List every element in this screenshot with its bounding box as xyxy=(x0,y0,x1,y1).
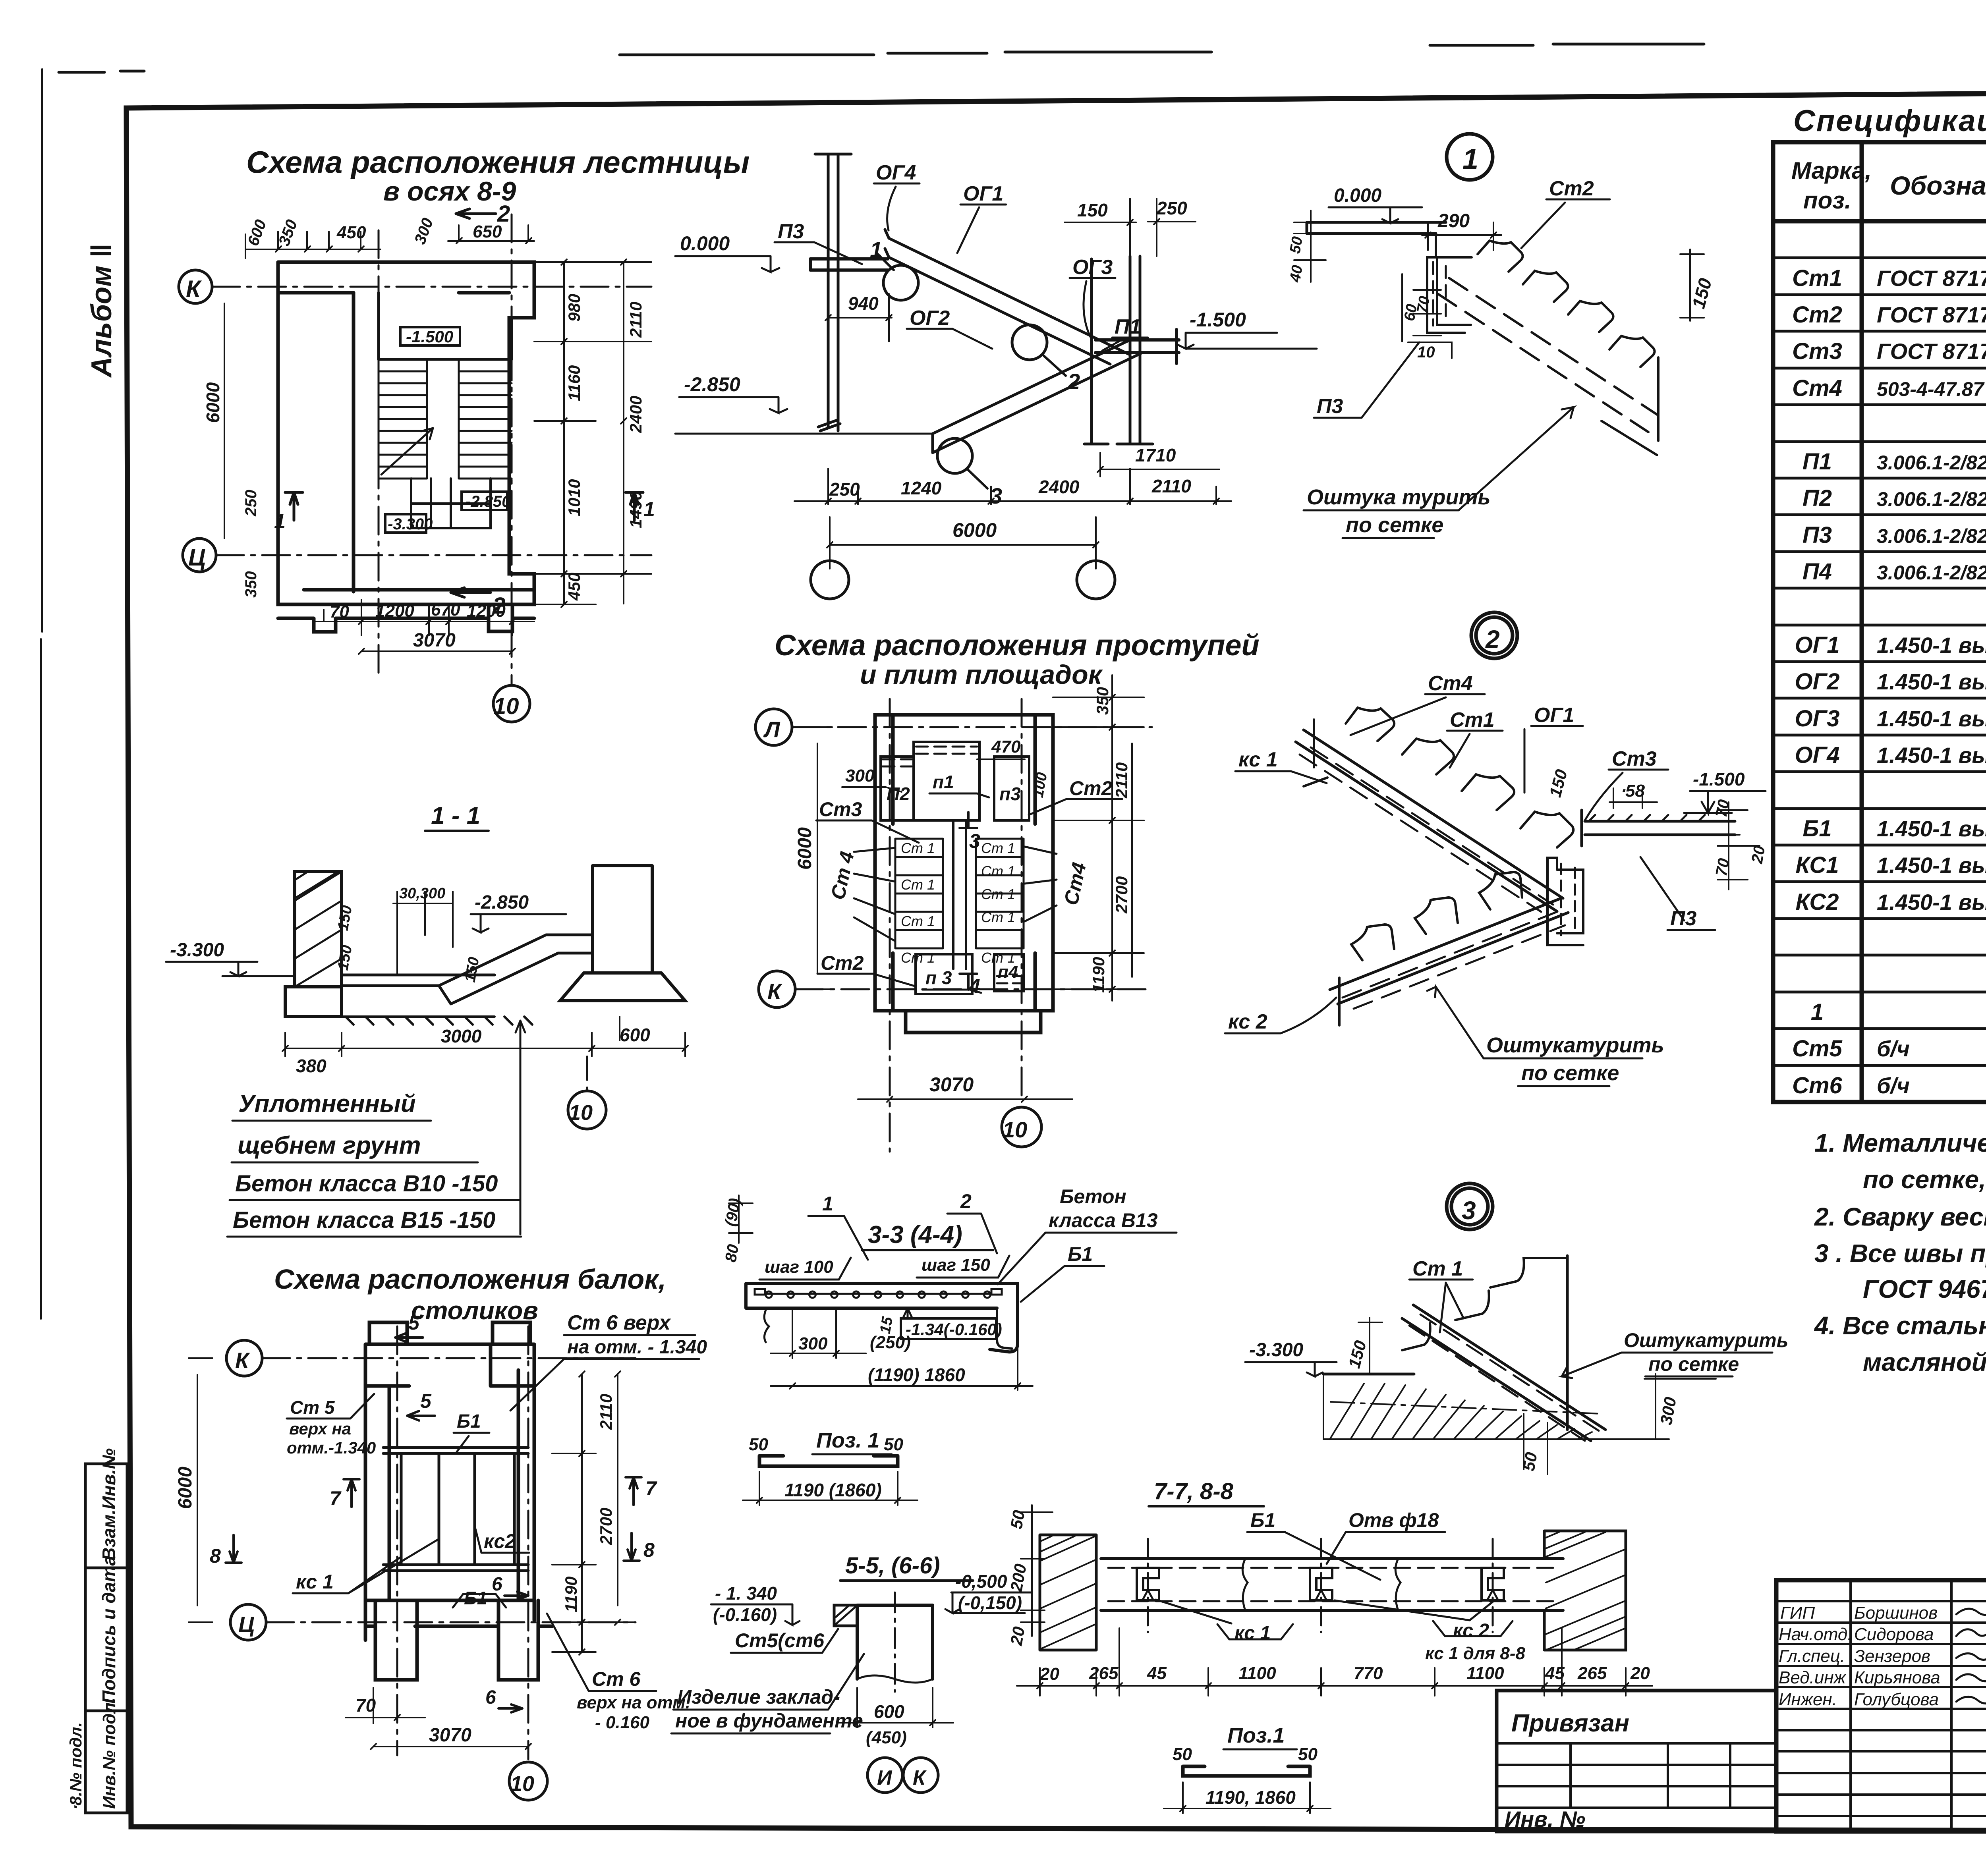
svg-text:Схема расположения лестницы: Схема расположения лестницы xyxy=(246,145,750,179)
svg-text:п1: п1 xyxy=(933,772,954,792)
svg-text:Ст5: Ст5 xyxy=(1792,1036,1842,1062)
privyazan box xyxy=(1497,1691,1776,1832)
svg-text:3070: 3070 xyxy=(413,630,456,651)
svg-text:кс 1 для 8-8: кс 1 для 8-8 xyxy=(1425,1644,1526,1663)
svg-text:(1190) 1860: (1190) 1860 xyxy=(868,1365,965,1385)
svg-text:кс 2: кс 2 xyxy=(1453,1620,1489,1641)
s33 rebar dots xyxy=(766,1291,991,1298)
d3 hatch region xyxy=(1323,1374,1605,1439)
elevation right platform xyxy=(1095,330,1179,363)
svg-text:Поз.1: Поз.1 xyxy=(1227,1724,1285,1747)
svg-text:шаг 100: шаг 100 xyxy=(765,1257,833,1277)
svg-text:350: 350 xyxy=(1093,687,1112,715)
svg-text:503-4-47.87 -КЖИ-ЛС12-1: 503-4-47.87 -КЖИ-ЛС12-1 xyxy=(1877,378,1986,400)
flight og1 xyxy=(889,238,1129,364)
svg-text:2400: 2400 xyxy=(1038,477,1080,497)
svg-text:п3: п3 xyxy=(999,784,1021,804)
svg-text:П1: П1 xyxy=(1115,315,1141,338)
svg-text:15: 15 xyxy=(877,1315,896,1335)
svg-text:шаг 150: шаг 150 xyxy=(922,1255,990,1275)
svg-text:-3.300: -3.300 xyxy=(1249,1339,1303,1361)
bp walls xyxy=(365,1322,552,1680)
svg-text:50: 50 xyxy=(749,1435,768,1454)
svg-text:ОГ1: ОГ1 xyxy=(1795,632,1840,658)
svg-text:Ц: Ц xyxy=(188,544,206,571)
svg-text:К: К xyxy=(235,1348,250,1373)
pos1 right bar xyxy=(1183,1766,1310,1776)
svg-text:2. Сварку вести электродами: 2. Сварку вести электродами типа Э 42. xyxy=(1814,1202,1986,1231)
svg-text:кс 1: кс 1 xyxy=(296,1571,334,1593)
svg-text:8: 8 xyxy=(643,1539,655,1561)
svg-text:Б1: Б1 xyxy=(1250,1509,1275,1531)
svg-text:4. Все стальные конструк: 4. Все стальные конструкции окрасить xyxy=(1814,1311,1986,1340)
svg-text:-1.34(-0.160): -1.34(-0.160) xyxy=(906,1320,1002,1339)
svg-text:1: 1 xyxy=(1811,999,1824,1025)
svg-text:Сидорова: Сидорова xyxy=(1854,1625,1934,1644)
svg-text:50: 50 xyxy=(1298,1745,1318,1764)
midplan right dims xyxy=(1053,675,1144,1001)
d3 flight band xyxy=(1402,1256,1605,1441)
svg-text:3000: 3000 xyxy=(441,1026,482,1046)
detail circle 3 xyxy=(937,438,972,473)
svg-text:350: 350 xyxy=(242,571,260,598)
level box -1.500 xyxy=(400,327,460,345)
section mark 2 top xyxy=(456,209,496,218)
bottom dims xyxy=(314,600,534,654)
svg-text:1.450-1 вып.2: 1.450-1 вып.2 xyxy=(1877,633,1986,658)
svg-text:⋅8.№ подл.: ⋅8.№ подл. xyxy=(66,1722,85,1811)
svg-text:Ст4: Ст4 xyxy=(1792,375,1842,401)
svg-text:Ст 1: Ст 1 xyxy=(981,886,1015,902)
svg-text:⋅58: ⋅58 xyxy=(1620,781,1645,801)
bp axis Ts circle xyxy=(230,1604,266,1640)
left flight treads xyxy=(379,359,427,479)
svg-text:1.450-1 вып. 2: 1.450-1 вып. 2 xyxy=(1877,816,1986,841)
svg-text:Ц: Ц xyxy=(238,1612,255,1637)
svg-text:Альбом ‖: Альбом ‖ xyxy=(86,243,118,378)
svg-text:Бетон: Бетон xyxy=(1060,1185,1126,1208)
svg-text:3-3 (4-4): 3-3 (4-4) xyxy=(868,1221,962,1249)
svg-text:ОГ4: ОГ4 xyxy=(876,161,916,184)
svg-text:верх на: верх на xyxy=(289,1419,351,1438)
svg-text:щебнем грунт: щебнем грунт xyxy=(238,1132,421,1159)
bp stringers xyxy=(401,1453,514,1565)
svg-text:1490: 1490 xyxy=(626,491,645,528)
svg-text:5-5, (6-6): 5-5, (6-6) xyxy=(845,1553,940,1579)
svg-text:70: 70 xyxy=(330,602,349,621)
svg-text:50: 50 xyxy=(1287,235,1306,255)
svg-text:40: 40 xyxy=(1287,264,1306,284)
svg-text:ГОСТ 9467-75: ГОСТ 9467-75 xyxy=(1863,1275,1986,1303)
svg-text:Л: Л xyxy=(763,717,780,742)
svg-text:Б1: Б1 xyxy=(1802,816,1831,841)
svg-text:по сетке: по сетке xyxy=(1648,1353,1739,1375)
bp axis 10 circle xyxy=(509,1762,547,1800)
d2 channel joint xyxy=(1547,858,1583,945)
svg-text:К: К xyxy=(186,276,202,302)
svg-text:0.000: 0.000 xyxy=(680,232,730,255)
section mark 1 right xyxy=(626,492,643,520)
svg-text:Ст5(ст6: Ст5(ст6 xyxy=(735,1629,825,1652)
s11 right column xyxy=(584,866,661,973)
svg-text:п4: п4 xyxy=(998,962,1018,982)
svg-text:Поз. 1: Поз. 1 xyxy=(816,1428,879,1452)
svg-text:-3.300: -3.300 xyxy=(170,940,224,961)
svg-text:1190, 1860: 1190, 1860 xyxy=(1206,1787,1296,1808)
svg-text:2110: 2110 xyxy=(626,302,645,338)
svg-text:кс 1: кс 1 xyxy=(1238,748,1278,771)
svg-text:2400: 2400 xyxy=(626,396,645,433)
svg-text:2110: 2110 xyxy=(597,1394,615,1430)
svg-text:600: 600 xyxy=(874,1701,904,1722)
svg-text:Кирьянова: Кирьянова xyxy=(1854,1668,1940,1687)
svg-text:Привязан: Привязан xyxy=(1511,1710,1629,1737)
svg-text:2700: 2700 xyxy=(597,1508,615,1545)
spec rows text xyxy=(1792,226,1986,1098)
svg-text:5: 5 xyxy=(408,1312,420,1334)
s11 leader to notes xyxy=(516,1021,525,1234)
svg-text:Ст3: Ст3 xyxy=(1792,338,1842,364)
svg-text:Ст1: Ст1 xyxy=(1450,708,1495,731)
axis lines xyxy=(212,214,651,685)
bottom cells grid xyxy=(411,479,491,528)
svg-text:ГОСТ 8717.1 - 84: ГОСТ 8717.1 - 84 xyxy=(1877,302,1986,327)
pos1 right dim xyxy=(1164,1782,1331,1813)
svg-text:380: 380 xyxy=(296,1056,326,1076)
svg-text:Ст4: Ст4 xyxy=(1428,672,1473,695)
svg-text:Ст1: Ст1 xyxy=(1792,265,1842,291)
d1 stringer dashed xyxy=(1438,278,1658,432)
signature texts xyxy=(1779,1603,1940,1709)
s55 dim 600 xyxy=(838,1688,953,1727)
svg-text:кс 2: кс 2 xyxy=(1228,1010,1267,1033)
s11 ground hatch xyxy=(342,1017,532,1025)
d2 lower steps xyxy=(1351,872,1522,960)
title block outer xyxy=(1776,1580,1986,1832)
svg-text:Боршинов: Боршинов xyxy=(1854,1603,1938,1623)
svg-text:-2.850: -2.850 xyxy=(684,373,740,396)
svg-text:Ст 1: Ст 1 xyxy=(901,876,935,893)
s11 bottom dims xyxy=(282,1033,688,1056)
svg-text:7-7, 8-8: 7-7, 8-8 xyxy=(1154,1478,1234,1504)
svg-text:20: 20 xyxy=(1748,844,1768,865)
svg-text:20: 20 xyxy=(1007,1625,1028,1647)
svg-text:П3: П3 xyxy=(778,220,804,243)
midplan bottom platform P4 xyxy=(994,954,1024,991)
svg-text:6000: 6000 xyxy=(794,827,815,870)
svg-text:150: 150 xyxy=(1077,200,1108,220)
pos1 dim xyxy=(743,1472,918,1505)
s77 left wall hatched xyxy=(1040,1535,1096,1650)
svg-text:Ст 1: Ст 1 xyxy=(981,863,1015,879)
svg-text:КС1: КС1 xyxy=(1795,852,1839,878)
svg-text:Вед.инж: Вед.инж xyxy=(1779,1668,1847,1687)
d2 platform xyxy=(1582,810,1735,846)
svg-text:Схема расположения балок,: Схема расположения балок, xyxy=(274,1264,666,1295)
svg-text:в осях 8-9: в осях 8-9 xyxy=(383,176,516,207)
bp right dims xyxy=(552,1358,636,1655)
svg-text:10: 10 xyxy=(1417,344,1435,361)
svg-text:ОГ1: ОГ1 xyxy=(1534,704,1574,727)
svg-text:300: 300 xyxy=(845,766,875,786)
elevation left platform xyxy=(810,259,888,270)
plan walls xyxy=(278,262,534,632)
svg-text:10: 10 xyxy=(569,1101,593,1125)
svg-text:поз.: поз. xyxy=(1803,187,1851,214)
svg-text:1: 1 xyxy=(870,237,882,262)
d1 platform slab xyxy=(1307,222,1446,234)
svg-text:ГОСТ 8717.1 - 84: ГОСТ 8717.1 - 84 xyxy=(1877,266,1986,291)
svg-text:П2: П2 xyxy=(887,784,910,804)
svg-text:Бетон класса В10 -150: Бетон класса В10 -150 xyxy=(235,1171,498,1197)
svg-text:Б1: Б1 xyxy=(464,1588,487,1608)
svg-text:10: 10 xyxy=(493,693,519,719)
midplan bottom platform P3 xyxy=(916,954,972,994)
svg-text:3.006.1-2/82 вып.1-2: 3.006.1-2/82 вып.1-2 xyxy=(1877,488,1986,510)
svg-text:Гл.спец.: Гл.спец. xyxy=(1779,1646,1845,1666)
svg-text:Отв ф18: Отв ф18 xyxy=(1348,1509,1439,1531)
s11 axis 10 circle xyxy=(568,1091,606,1129)
svg-text:Оштукатурить: Оштукатурить xyxy=(1486,1033,1664,1057)
svg-text:1.450-1 вып. 2: 1.450-1 вып. 2 xyxy=(1877,853,1986,878)
svg-text:3: 3 xyxy=(969,830,980,852)
svg-text:И: И xyxy=(877,1766,893,1789)
svg-text:Ст2: Ст2 xyxy=(1069,777,1113,799)
d2 upper steps xyxy=(1346,708,1573,847)
svg-text:50: 50 xyxy=(1173,1745,1192,1764)
svg-text:ОГ2: ОГ2 xyxy=(1795,669,1840,695)
svg-text:Инв. №: Инв. № xyxy=(1505,1807,1585,1832)
svg-text:265: 265 xyxy=(1089,1664,1119,1683)
s77 right wall hatched xyxy=(1544,1531,1626,1650)
svg-text:- 0.160: - 0.160 xyxy=(595,1713,650,1732)
svg-text:1190 (1860): 1190 (1860) xyxy=(784,1480,882,1500)
svg-text:45: 45 xyxy=(1545,1664,1565,1683)
svg-text:670: 670 xyxy=(431,600,460,620)
svg-text:30,300: 30,300 xyxy=(399,885,445,902)
right dim chains xyxy=(534,259,651,607)
svg-text:Ст 1: Ст 1 xyxy=(981,909,1015,925)
svg-text:отм.-1.340: отм.-1.340 xyxy=(287,1438,376,1457)
svg-text:80: 80 xyxy=(722,1243,742,1263)
svg-text:1: 1 xyxy=(822,1193,833,1215)
svg-text:2: 2 xyxy=(1485,625,1500,654)
signature grid xyxy=(1776,1580,1986,1832)
svg-text:П3: П3 xyxy=(1317,395,1343,418)
svg-text:и плит площадок: и плит площадок xyxy=(860,660,1103,690)
bp axis lines xyxy=(262,1326,636,1759)
svg-text:масляной краской за 2 ра: масляной краской за 2 раза xyxy=(1863,1348,1986,1376)
stair up arrow xyxy=(381,428,433,475)
svg-text:-3.300: -3.300 xyxy=(388,515,433,533)
svg-text:250: 250 xyxy=(242,490,260,517)
bp label B1 bottom xyxy=(453,1594,506,1608)
svg-text:-1.500: -1.500 xyxy=(1693,769,1745,789)
axis 10 circle xyxy=(493,685,530,722)
s11 left wall hatched xyxy=(295,872,342,987)
svg-text:300: 300 xyxy=(798,1334,828,1353)
detail 3 circle xyxy=(1447,1183,1493,1229)
svg-text:по сетке: по сетке xyxy=(1346,513,1443,537)
midplan walls xyxy=(875,715,1053,1033)
sidebar stamp boxes xyxy=(85,1464,127,1813)
svg-text:-0,500: -0,500 xyxy=(955,1571,1007,1592)
elevation bottom dim chain xyxy=(794,469,1231,504)
svg-text:1.450-1 вып.2: 1.450-1 вып.2 xyxy=(1877,669,1986,694)
svg-text:Инв.№ подл.: Инв.№ подл. xyxy=(100,1698,119,1809)
svg-text:1.450-1 вып.2: 1.450-1 вып.2 xyxy=(1877,743,1986,768)
svg-text:Схема расположения проступей: Схема расположения проступей xyxy=(775,629,1260,662)
svg-text:Оштукатурить: Оштукатурить xyxy=(1624,1329,1788,1351)
svg-text:1200: 1200 xyxy=(467,601,506,621)
s77 label KC1 xyxy=(1217,1624,1293,1639)
spec table grid xyxy=(1773,142,1986,1102)
svg-text:250: 250 xyxy=(829,479,860,500)
svg-text:Обозначение: Обозначение xyxy=(1890,171,1986,200)
svg-text:6000: 6000 xyxy=(952,519,997,541)
s33 wavy break xyxy=(764,1308,769,1342)
s77 label KC2 xyxy=(1433,1621,1513,1636)
s33 level box xyxy=(901,1318,996,1339)
svg-text:1240: 1240 xyxy=(901,478,942,498)
svg-text:1190: 1190 xyxy=(562,1577,580,1612)
svg-text:ОГ4: ОГ4 xyxy=(1795,742,1840,768)
svg-text:Уплотненный: Уплотненный xyxy=(238,1090,416,1117)
svg-text:7: 7 xyxy=(645,1477,657,1500)
svg-text:3: 3 xyxy=(1462,1196,1476,1225)
svg-text:Ст3: Ст3 xyxy=(1612,747,1657,770)
s55 axis I K circles xyxy=(867,1758,938,1793)
svg-text:-2.850: -2.850 xyxy=(475,892,529,913)
svg-text:70: 70 xyxy=(355,1695,376,1716)
svg-text:70: 70 xyxy=(1414,295,1433,315)
s55 angle xyxy=(834,1605,857,1626)
svg-text:450: 450 xyxy=(336,223,366,242)
svg-text:8: 8 xyxy=(210,1545,221,1567)
svg-text:верх на отм.: верх на отм. xyxy=(577,1693,690,1712)
s77 channel clips xyxy=(1137,1568,1504,1600)
svg-text:1710: 1710 xyxy=(1135,445,1176,465)
svg-text:кс2: кс2 xyxy=(484,1530,516,1552)
midplan left tread labels xyxy=(901,840,935,966)
level box -2.850 xyxy=(462,492,507,510)
d3 steps xyxy=(1402,1258,1567,1350)
svg-text:ОГ3: ОГ3 xyxy=(1072,256,1113,279)
svg-text:1100: 1100 xyxy=(1466,1664,1504,1683)
svg-text:(250): (250) xyxy=(870,1333,911,1352)
svg-text:3070: 3070 xyxy=(429,1725,471,1746)
svg-text:50: 50 xyxy=(884,1435,903,1454)
svg-text:3.006.1-2/82 вып.1-2: 3.006.1-2/82 вып.1-2 xyxy=(1877,562,1986,584)
svg-text:770: 770 xyxy=(1354,1664,1383,1683)
section mark 2 bottom xyxy=(451,588,491,597)
d2 lower flight band xyxy=(1330,898,1568,1004)
svg-text:ОГ1: ОГ1 xyxy=(963,182,1003,205)
svg-text:- 1. 340: - 1. 340 xyxy=(715,1583,777,1604)
svg-text:ОГ3: ОГ3 xyxy=(1795,706,1840,731)
svg-text:по сетке: по сетке xyxy=(1521,1061,1619,1085)
bp beam B1 top xyxy=(383,1448,528,1453)
svg-text:Подпись и дата: Подпись и дата xyxy=(99,1556,119,1704)
midplan left treads xyxy=(895,839,943,948)
svg-text:(-0.160): (-0.160) xyxy=(713,1604,777,1625)
elevation left wall verticals xyxy=(815,154,851,431)
svg-text:2110: 2110 xyxy=(1151,476,1191,496)
svg-text:1: 1 xyxy=(1462,143,1478,175)
detail 1 circle xyxy=(1447,134,1493,180)
svg-text:Зензеров: Зензеров xyxy=(1854,1646,1930,1666)
svg-text:-1.500: -1.500 xyxy=(1190,309,1246,331)
svg-text:3.006.1-2/82 вып.1-2: 3.006.1-2/82 вып.1-2 xyxy=(1877,525,1986,547)
svg-text:6000: 6000 xyxy=(203,382,223,423)
svg-text:10: 10 xyxy=(510,1772,534,1796)
svg-text:50: 50 xyxy=(1519,1451,1541,1472)
svg-text:П1: П1 xyxy=(1802,449,1832,475)
svg-text:п 3: п 3 xyxy=(925,967,952,988)
svg-text:Взам.Инв.№: Взам.Инв.№ xyxy=(99,1448,119,1561)
left dim 6000 xyxy=(216,287,240,555)
svg-text:2: 2 xyxy=(1067,369,1080,394)
svg-text:Ст3: Ст3 xyxy=(819,798,862,820)
svg-text:-2.850: -2.850 xyxy=(466,493,510,510)
svg-text:940: 940 xyxy=(848,293,879,314)
svg-text:Ст6: Ст6 xyxy=(1792,1073,1842,1098)
torn paper edge dashes xyxy=(59,44,1704,72)
bp axis K circle xyxy=(226,1340,262,1376)
svg-text:К: К xyxy=(913,1766,927,1789)
section mark 1 left xyxy=(285,492,303,520)
svg-text:столиков: столиков xyxy=(411,1296,538,1325)
svg-text:3070: 3070 xyxy=(929,1073,974,1096)
bp bottom dims xyxy=(346,1688,531,1749)
svg-text:ГОСТ 8717. 1-84: ГОСТ 8717. 1-84 xyxy=(1877,339,1986,364)
midplan platform P2 xyxy=(881,757,914,820)
midplan center strip xyxy=(953,820,966,969)
svg-text:Голубцова: Голубцова xyxy=(1854,1690,1939,1709)
svg-text:Инжен.: Инжен. xyxy=(1779,1690,1837,1709)
svg-text:1 - 1: 1 - 1 xyxy=(431,802,480,830)
svg-text:Спецификация к схеме распол: Спецификация к схеме расположения лестни… xyxy=(1793,104,1986,138)
svg-text:70: 70 xyxy=(1713,857,1733,877)
axis K circle xyxy=(179,270,212,303)
svg-text:600: 600 xyxy=(620,1025,650,1045)
svg-text:(450): (450) xyxy=(866,1728,907,1747)
svg-text:2: 2 xyxy=(960,1190,972,1212)
top dims xyxy=(245,225,534,258)
svg-text:3.006.1-2/82 вып.1-2: 3.006.1-2/82 вып.1-2 xyxy=(1877,452,1986,474)
stair core landing top xyxy=(379,293,512,359)
svg-text:Ст 6: Ст 6 xyxy=(592,1668,641,1690)
svg-text:Ст 1: Ст 1 xyxy=(1412,1257,1463,1280)
svg-text:1190: 1190 xyxy=(1089,957,1108,993)
svg-text:К: К xyxy=(767,979,782,1004)
d1 channel P3 xyxy=(1427,257,1471,333)
s55 column xyxy=(857,1605,933,1679)
flight og2 xyxy=(933,340,1141,453)
svg-text:1160: 1160 xyxy=(565,365,583,401)
svg-text:3 . Все швы принимать толщ: 3 . Все швы принимать толщиной hшв = 6мм… xyxy=(1814,1239,1986,1268)
svg-text:П4: П4 xyxy=(1802,559,1832,585)
svg-text:20: 20 xyxy=(1039,1664,1059,1684)
svg-text:Ст 6 верх: Ст 6 верх xyxy=(567,1311,671,1334)
pos1 bar xyxy=(759,1456,898,1466)
svg-text:7: 7 xyxy=(330,1487,342,1509)
svg-text:5: 5 xyxy=(420,1390,432,1412)
svg-text:ное в фундаменте: ное в фундаменте xyxy=(675,1710,863,1732)
svg-text:1. Металлические касоуры и б: 1. Металлические касоуры и балки оштукат… xyxy=(1814,1129,1986,1157)
s33 bottom dims xyxy=(771,1308,1033,1390)
midplan axis lines xyxy=(792,699,1152,1152)
